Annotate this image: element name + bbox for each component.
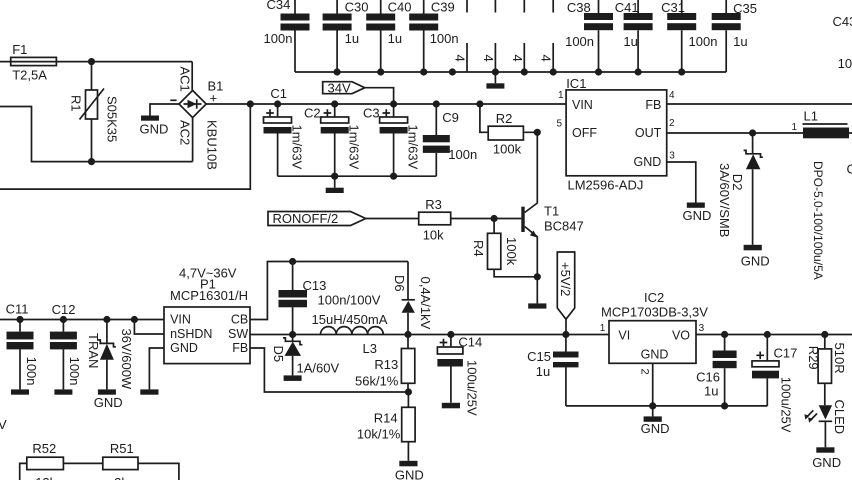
svg-text:CLED: CLED xyxy=(832,400,847,435)
svg-text:36V/600W: 36V/600W xyxy=(119,329,134,390)
svg-text:10k/1%: 10k/1% xyxy=(357,427,401,442)
svg-text:510R: 510R xyxy=(832,343,847,374)
node VO / C17 xyxy=(764,331,771,338)
svg-text:1m/63V: 1m/63V xyxy=(405,125,420,170)
resistor R13 56k/1% xyxy=(355,335,415,393)
svg-text:R29: R29 xyxy=(806,346,821,370)
wire IC2 pin2 stem xyxy=(652,363,654,406)
ground R14 xyxy=(395,461,424,480)
svg-text:100n: 100n xyxy=(565,34,594,49)
capacitor C11 100n xyxy=(6,302,39,395)
svg-text:GND: GND xyxy=(634,155,662,169)
svg-text:C: C xyxy=(847,162,852,177)
diode CLED xyxy=(804,400,847,448)
svg-text:OUT: OUT xyxy=(635,126,662,140)
svg-text:R13: R13 xyxy=(374,357,398,372)
wire IC1 OUT net xyxy=(667,132,803,134)
svg-text:S05K35: S05K35 xyxy=(105,96,120,142)
svg-text:100k: 100k xyxy=(493,142,522,157)
node bridge output xyxy=(247,100,254,107)
svg-text:C11: C11 xyxy=(6,302,29,317)
wire capacitor bottom bus xyxy=(278,175,437,177)
node C16 bottom xyxy=(721,402,728,409)
svg-text:R4: R4 xyxy=(471,240,486,257)
capacitor C38 xyxy=(565,0,613,72)
svg-text:4: 4 xyxy=(453,55,468,62)
svg-text:C40: C40 xyxy=(388,0,412,14)
svg-text:34V: 34V xyxy=(328,80,351,95)
ground T1 emitter xyxy=(528,277,546,309)
ground bridge xyxy=(140,116,169,137)
svg-text:RONOFF/2: RONOFF/2 xyxy=(273,211,339,226)
resistor R51 2k xyxy=(103,441,179,480)
wire P1 FB net xyxy=(250,348,408,392)
svg-text:2: 2 xyxy=(669,118,675,129)
svg-text:C12: C12 xyxy=(52,302,76,317)
node VO / C16 xyxy=(721,331,728,338)
svg-text:L1: L1 xyxy=(804,109,818,124)
node SW / +5V flag / C15 xyxy=(562,331,569,338)
svg-text:C31: C31 xyxy=(661,0,685,15)
node fuse/R1 junction xyxy=(88,58,95,65)
diode D5 1A/60V xyxy=(271,335,339,381)
svg-text:KBU10B: KBU10B xyxy=(205,120,220,170)
svg-text:C2: C2 xyxy=(304,106,321,121)
svg-text:1u: 1u xyxy=(623,34,637,49)
svg-text:C9: C9 xyxy=(442,110,459,125)
resistor R2 100k xyxy=(480,104,537,157)
svg-text:+5V/2: +5V/2 xyxy=(558,262,573,296)
svg-text:R52: R52 xyxy=(32,441,56,456)
diode D2 3A/60V/SMB xyxy=(717,133,770,268)
svg-text:C39: C39 xyxy=(431,0,455,14)
svg-text:3: 3 xyxy=(699,323,705,334)
diode D6 0,4A/1kV xyxy=(392,262,433,335)
svg-text:100n: 100n xyxy=(448,147,477,162)
capacitor C3 1m/63V xyxy=(363,104,420,176)
diode TRAN 36V/600W suppressor xyxy=(86,320,134,411)
capacitor C15 1u xyxy=(527,335,578,406)
svg-text:DPO-5.0-100/100u/5A: DPO-5.0-100/100u/5A xyxy=(811,161,825,280)
svg-text:OFF: OFF xyxy=(572,126,597,140)
svg-text:GND: GND xyxy=(395,468,424,480)
svg-text:GND: GND xyxy=(140,122,169,137)
node junctions on left rail xyxy=(16,316,138,323)
node VO / R29 xyxy=(821,331,828,338)
svg-text:100k: 100k xyxy=(504,237,519,266)
resistor R4 100k xyxy=(471,219,537,277)
svg-text:CB: CB xyxy=(231,312,248,326)
svg-text:GND: GND xyxy=(641,348,669,362)
node C3 bottom xyxy=(390,173,397,180)
svg-text:10k: 10k xyxy=(423,228,444,243)
svg-text:VI: VI xyxy=(618,329,630,343)
svg-text:GND: GND xyxy=(94,395,123,410)
svg-text:GND: GND xyxy=(812,455,841,470)
capacitor C40 xyxy=(366,0,411,72)
svg-text:GND: GND xyxy=(741,253,770,268)
svg-text:1u: 1u xyxy=(704,384,718,399)
capacitor C1 1m/63V xyxy=(264,86,305,176)
capacitor C13 100n/100V xyxy=(279,262,381,335)
wire main 34V rail xyxy=(250,103,566,105)
capacitor C41 xyxy=(615,0,653,72)
svg-text:C34: C34 xyxy=(267,0,291,12)
svg-text:2: 2 xyxy=(639,369,651,375)
node C2 bottom xyxy=(331,173,338,180)
bridge rectifier B1 KBU10B xyxy=(170,67,223,170)
svg-text:GND: GND xyxy=(170,341,198,355)
svg-text:VO: VO xyxy=(672,329,690,343)
wire pin stub 3 with pin number 4 xyxy=(510,0,525,72)
wire bottom ground rail xyxy=(566,405,767,407)
svg-text:GND: GND xyxy=(641,421,670,436)
svg-text:nSHDN: nSHDN xyxy=(170,327,212,341)
node base junction xyxy=(491,215,498,222)
svg-text:MCP1703DB-3,3V: MCP1703DB-3,3V xyxy=(601,305,708,320)
svg-text:0,4A/1kV: 0,4A/1kV xyxy=(418,277,433,330)
wire bridge plus to rail xyxy=(206,103,250,105)
svg-text:1u: 1u xyxy=(388,31,402,46)
node SW / C13 / D5 xyxy=(289,331,296,338)
ground P1 xyxy=(140,389,158,394)
svg-text:LM2596-ADJ: LM2596-ADJ xyxy=(568,177,644,192)
svg-text:2k: 2k xyxy=(114,475,128,480)
svg-text:C16: C16 xyxy=(696,370,720,385)
svg-text:R3: R3 xyxy=(425,197,442,212)
wire CB to top rail xyxy=(250,262,408,320)
capacitor C17 100u/25V xyxy=(752,335,797,433)
svg-text:FB: FB xyxy=(232,341,248,355)
node SW / D6 / R13 xyxy=(404,331,411,338)
svg-text:1A/60V: 1A/60V xyxy=(297,361,340,376)
wire VO 3,3V net xyxy=(696,334,852,336)
wire AC1 feed xyxy=(191,62,193,91)
svg-text:R1: R1 xyxy=(69,95,84,112)
svg-text:1: 1 xyxy=(792,122,798,133)
svg-text:R51: R51 xyxy=(110,441,134,456)
wire nSHDN tap xyxy=(134,320,164,335)
inductor L1 DPO-5.0-100/100u/5A xyxy=(792,109,852,280)
wire top bus xyxy=(295,71,726,73)
resistor R3 10k xyxy=(366,197,494,243)
svg-text:4: 4 xyxy=(481,55,496,62)
node OUT junction xyxy=(749,129,756,136)
svg-text:C41: C41 xyxy=(615,0,639,15)
svg-text:L3: L3 xyxy=(363,341,377,356)
capacitor C35 xyxy=(712,0,757,72)
svg-text:100u/25V: 100u/25V xyxy=(464,360,479,416)
svg-text:100n: 100n xyxy=(24,357,39,386)
svg-text:IC2: IC2 xyxy=(644,290,664,305)
svg-text:VIN: VIN xyxy=(572,98,593,112)
svg-text:3: 3 xyxy=(669,150,675,161)
node OFF junction xyxy=(534,129,541,136)
node SW / C14 xyxy=(447,331,454,338)
svg-text:100n/100V: 100n/100V xyxy=(318,293,381,308)
svg-text:C35: C35 xyxy=(733,1,757,16)
svg-text:100u/25V: 100u/25V xyxy=(778,377,793,433)
resistor R14 10k/1% xyxy=(357,392,415,461)
svg-text:FB: FB xyxy=(645,98,661,112)
svg-text:D5: D5 xyxy=(271,346,286,363)
wire pin stub 1 with pin number 4 xyxy=(453,0,468,72)
wire IC1 FB net xyxy=(667,103,852,105)
svg-text:1u: 1u xyxy=(345,31,359,46)
svg-text:1: 1 xyxy=(600,323,606,334)
svg-text:1: 1 xyxy=(558,90,564,101)
node R1 bottom xyxy=(88,158,95,165)
wire P1 GND pin xyxy=(149,348,164,389)
svg-text:100n: 100n xyxy=(689,34,718,49)
svg-text:4: 4 xyxy=(510,55,525,62)
capacitor C34 xyxy=(264,0,310,72)
capacitor C31 xyxy=(661,0,717,72)
node junctions on main rail xyxy=(274,100,484,107)
wire lower AC input xyxy=(0,104,250,189)
node pin2 / rail xyxy=(649,402,656,409)
svg-text:5: 5 xyxy=(557,119,563,130)
svg-text:C38: C38 xyxy=(567,0,591,15)
svg-text:C30: C30 xyxy=(345,0,369,14)
svg-text:AC2: AC2 xyxy=(178,120,193,145)
wire AC2 loop xyxy=(0,107,193,162)
svg-text:15uH/450mA: 15uH/450mA xyxy=(312,312,388,327)
ground IC2 xyxy=(641,406,670,436)
resistor R29 510R xyxy=(806,335,847,406)
ground top bus xyxy=(486,72,504,89)
node emitter junction xyxy=(534,273,541,280)
svg-text:VIN: VIN xyxy=(170,312,191,326)
svg-text:SW: SW xyxy=(228,327,248,341)
capacitor C39 xyxy=(409,0,458,72)
resistor R52 12k xyxy=(20,441,103,480)
svg-text:C15: C15 xyxy=(527,349,551,364)
svg-text:V: V xyxy=(0,417,7,432)
svg-text:BC847: BC847 xyxy=(544,219,584,234)
svg-text:C14: C14 xyxy=(458,335,482,350)
svg-text:1u: 1u xyxy=(733,34,747,49)
svg-text:12k: 12k xyxy=(35,475,56,480)
wire pin stub 4 with pin number 4 xyxy=(539,0,554,72)
fuse F1 xyxy=(0,42,192,83)
svg-text:56k/1%: 56k/1% xyxy=(355,373,399,388)
svg-text:R2: R2 xyxy=(496,111,513,126)
svg-text:D6: D6 xyxy=(392,275,407,292)
wire left input rail 36V xyxy=(0,319,164,321)
wire bridge minus to ground xyxy=(150,104,179,116)
transistor T1 BC847 xyxy=(494,132,584,276)
node junctions on top bus xyxy=(334,68,686,75)
node CB rail / C13 xyxy=(289,258,296,265)
op-amp IC2 MCP1703DB-3,3V xyxy=(600,290,708,375)
svg-text:100n: 100n xyxy=(67,357,82,386)
capacitor C16 1u xyxy=(696,335,737,406)
wire pin stub 2 with pin number 4 xyxy=(481,0,496,72)
node FB divider junction xyxy=(405,388,412,395)
capacitor C12 100n xyxy=(50,302,82,395)
svg-text:IC1: IC1 xyxy=(566,76,586,91)
svg-text:4: 4 xyxy=(539,55,554,62)
net flag RONOFF/2 xyxy=(268,211,366,226)
svg-text:C3: C3 xyxy=(363,106,380,121)
capacitor C14 100u/25V xyxy=(437,335,482,416)
svg-text:100: 100 xyxy=(838,56,852,71)
svg-text:F1: F1 xyxy=(12,42,27,57)
svg-text:MCP16301/H: MCP16301/H xyxy=(170,288,248,303)
capacitor C43 label (clipped at edge) xyxy=(833,14,852,71)
svg-text:R14: R14 xyxy=(374,410,398,425)
wire SW net xyxy=(250,334,609,336)
svg-text:T1: T1 xyxy=(544,204,559,219)
svg-text:100n: 100n xyxy=(264,31,293,46)
wire IC1 GND pin3 xyxy=(667,162,696,203)
svg-text:GND: GND xyxy=(683,208,712,223)
svg-text:TRAN: TRAN xyxy=(86,333,101,368)
capacitor C2 1m/63V xyxy=(304,104,362,176)
net flag 34V xyxy=(323,80,394,104)
ground cap bus xyxy=(326,176,344,193)
svg-text:C13: C13 xyxy=(303,278,327,293)
svg-text:4: 4 xyxy=(669,90,675,101)
svg-text:1m/63V: 1m/63V xyxy=(290,125,305,170)
resistor R1 varistor S05K35 xyxy=(69,62,120,162)
ground IC1 xyxy=(683,203,712,224)
inductor L3 15uH/450mA xyxy=(312,312,388,356)
op-amp P1 MCP16301/H xyxy=(164,266,250,364)
svg-text:1u: 1u xyxy=(536,364,550,379)
svg-text:C43: C43 xyxy=(833,14,852,29)
net flag +5V/2 xyxy=(557,252,574,335)
svg-text:C17: C17 xyxy=(774,346,798,361)
capacitor C9 100n xyxy=(423,104,477,176)
svg-text:AC1: AC1 xyxy=(178,67,193,92)
capacitor C30 xyxy=(323,0,369,72)
svg-text:T2,5A: T2,5A xyxy=(12,68,47,83)
op-amp IC1 LM2596-ADJ xyxy=(557,76,676,192)
svg-text:C1: C1 xyxy=(270,86,287,101)
ground CLED xyxy=(812,447,841,470)
svg-text:100n: 100n xyxy=(430,31,459,46)
svg-text:1m/63V: 1m/63V xyxy=(347,125,362,170)
svg-text:3A/60V/SMB: 3A/60V/SMB xyxy=(717,163,732,237)
